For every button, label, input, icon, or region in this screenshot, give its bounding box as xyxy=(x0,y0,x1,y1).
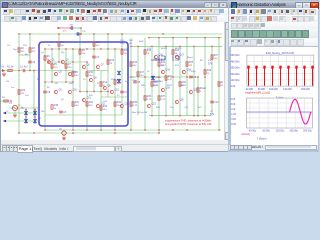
wire xyxy=(80,91,108,93)
transistor Q15 xyxy=(154,55,157,59)
resistor R23 xyxy=(172,50,174,54)
wire xyxy=(101,96,128,98)
svg-text:Rload: Rload xyxy=(200,88,207,90)
wire xyxy=(45,81,73,83)
node xyxy=(193,45,195,47)
svg-text:BD912: BD912 xyxy=(175,48,182,50)
resistor R11 xyxy=(93,42,95,46)
mosfet M1 xyxy=(159,55,165,61)
node xyxy=(197,115,199,117)
wire red link xyxy=(60,27,70,29)
wire xyxy=(165,46,167,115)
svg-text:C5: C5 xyxy=(137,82,141,84)
node xyxy=(179,45,181,47)
mosfet M2 xyxy=(173,55,179,61)
svg-text:R8: R8 xyxy=(70,24,74,26)
wire xyxy=(45,48,128,50)
svg-text:120.00m: 120.00m xyxy=(230,79,239,82)
resistor R13 xyxy=(107,60,109,64)
resistor R20 xyxy=(151,82,153,86)
svg-text:D2: D2 xyxy=(38,118,42,120)
node xyxy=(34,116,36,118)
node xyxy=(211,45,213,47)
svg-text:47R: 47R xyxy=(175,65,179,67)
node xyxy=(34,109,36,111)
svg-text:100n: 100n xyxy=(120,43,125,45)
node xyxy=(130,129,132,131)
wire xyxy=(1,70,46,72)
svg-text:R32: R32 xyxy=(89,102,94,104)
svg-text:47R: 47R xyxy=(161,65,165,67)
capacitor C8 xyxy=(43,91,47,93)
resistor R9 xyxy=(79,50,81,54)
svg-text:2n2: 2n2 xyxy=(11,87,15,89)
svg-text:Q2: Q2 xyxy=(59,72,63,74)
svg-text:R10: R10 xyxy=(89,72,94,74)
svg-text:R24: R24 xyxy=(129,40,134,42)
node xyxy=(151,115,153,117)
svg-text:4k7: 4k7 xyxy=(133,65,137,67)
node xyxy=(197,76,199,78)
resistor R31 xyxy=(72,102,74,106)
node xyxy=(79,48,81,50)
resistor R35 xyxy=(130,102,132,106)
node xyxy=(100,91,102,93)
wire xyxy=(204,38,206,116)
svg-text:10: 10 xyxy=(207,73,210,75)
resistor R16 xyxy=(130,62,132,66)
wire xyxy=(151,46,153,115)
svg-text:R16: R16 xyxy=(133,62,138,64)
node xyxy=(158,129,160,131)
node xyxy=(121,33,123,35)
svg-text:C4: C4 xyxy=(7,45,11,47)
node xyxy=(93,48,95,50)
node IN xyxy=(2,69,5,72)
svg-text:0R22: 0R22 xyxy=(153,85,159,87)
node xyxy=(100,129,102,131)
svg-text:Q13: Q13 xyxy=(103,101,108,103)
svg-text:3W: 3W xyxy=(181,85,184,87)
node xyxy=(165,115,167,117)
svg-text:10p: 10p xyxy=(13,49,17,51)
svg-text:Q1: Q1 xyxy=(41,52,45,54)
capacitor C3 xyxy=(59,111,63,113)
transistor Q17 xyxy=(175,55,178,59)
svg-text:200.00u: 200.00u xyxy=(303,130,312,133)
svg-text:R36: R36 xyxy=(147,96,152,98)
node xyxy=(18,132,20,134)
svg-text:100.00K: 100.00K xyxy=(269,88,278,91)
svg-text:and yields 0.007% crossover at: and yields 0.007% crossover at 500 mW xyxy=(165,122,212,126)
svg-text:1k: 1k xyxy=(175,53,178,55)
wire xyxy=(211,46,213,115)
wire xyxy=(193,46,195,115)
svg-text:Q8: Q8 xyxy=(108,86,112,88)
svg-text:C1 4u7: C1 4u7 xyxy=(20,66,28,69)
svg-text:R29: R29 xyxy=(21,90,26,92)
svg-text:C5: C5 xyxy=(83,79,87,81)
resistor R1 xyxy=(8,70,12,72)
wire xyxy=(130,38,132,130)
node xyxy=(186,76,188,78)
node xyxy=(107,48,109,50)
capacitor C9 xyxy=(71,26,73,30)
diode D1 xyxy=(24,111,27,115)
transistor Q12 xyxy=(96,104,99,108)
svg-text:0.22: 0.22 xyxy=(133,105,138,107)
node xyxy=(107,91,109,93)
transistor Q5 xyxy=(82,65,85,69)
wire xyxy=(93,34,95,92)
diode D8 xyxy=(117,79,120,83)
node xyxy=(86,61,88,63)
wire xyxy=(128,76,198,78)
svg-text:220: 220 xyxy=(68,67,72,69)
svg-text:R24: R24 xyxy=(182,82,187,84)
wire xyxy=(49,61,87,63)
node xyxy=(162,33,164,35)
resistor R27 xyxy=(211,55,213,59)
wire xyxy=(63,135,65,138)
svg-text:C10: C10 xyxy=(214,102,219,104)
node xyxy=(79,33,81,35)
node xyxy=(172,76,174,78)
node xyxy=(114,132,116,134)
wire xyxy=(86,62,88,130)
svg-text:R31: R31 xyxy=(75,102,80,104)
wire xyxy=(45,70,73,72)
node xyxy=(179,115,181,117)
node xyxy=(65,81,67,83)
transistor Q3 xyxy=(61,60,64,64)
plot2 zero line xyxy=(246,111,312,113)
svg-text:C6: C6 xyxy=(83,31,87,33)
svg-text:Q19: Q19 xyxy=(166,88,171,90)
svg-text:100: 100 xyxy=(214,58,218,60)
svg-text:Q13: Q13 xyxy=(115,90,120,92)
wire xyxy=(131,45,222,47)
svg-text:R26: R26 xyxy=(207,70,212,72)
resistor Rload xyxy=(197,88,199,92)
node xyxy=(144,76,146,78)
node xyxy=(151,45,153,47)
node xyxy=(44,129,46,131)
svg-text:0R22: 0R22 xyxy=(167,85,173,87)
svg-text:4k7: 4k7 xyxy=(129,43,133,45)
node xyxy=(33,132,35,134)
svg-text:R21: R21 xyxy=(161,62,166,64)
node xyxy=(193,115,195,117)
transistor Q14 xyxy=(120,104,123,108)
resistor R37 xyxy=(158,96,160,100)
svg-text:Q21: Q21 xyxy=(152,104,157,106)
node xyxy=(86,91,88,93)
svg-text:4k7: 4k7 xyxy=(61,45,65,47)
svg-text:Q14: Q14 xyxy=(125,104,130,106)
svg-text:Q20: Q20 xyxy=(180,100,185,102)
transistor Q8 xyxy=(103,86,106,90)
svg-text:160.00u: 160.00u xyxy=(289,130,298,133)
transistor Q2 xyxy=(54,72,57,76)
wire xyxy=(179,46,181,115)
wire xyxy=(45,114,122,116)
node xyxy=(72,132,74,134)
svg-text:-1.00: -1.00 xyxy=(230,113,236,116)
svg-text:Q17: Q17 xyxy=(180,55,185,57)
node xyxy=(72,61,74,63)
wire xyxy=(9,107,39,109)
svg-text:120.00u: 120.00u xyxy=(275,130,284,133)
node xyxy=(204,76,206,78)
svg-text:R5: R5 xyxy=(37,79,41,81)
svg-text:560: 560 xyxy=(75,105,79,107)
node xyxy=(10,100,12,102)
node xyxy=(44,81,46,83)
svg-text:Q3: Q3 xyxy=(66,60,70,62)
diode D4 xyxy=(33,119,36,123)
svg-text:10k: 10k xyxy=(82,53,86,55)
svg-text:R13: R13 xyxy=(110,60,115,62)
resistor R2 xyxy=(18,48,20,52)
svg-text:R5: R5 xyxy=(54,64,58,66)
svg-text:mag(harm(v(RL),2,a,b)): mag(harm(v(RL),2,a,b)) xyxy=(245,92,270,95)
svg-text:0.00: 0.00 xyxy=(230,85,235,88)
resistor R22 xyxy=(165,76,167,80)
wire xyxy=(107,34,109,97)
svg-text:1.00: 1.00 xyxy=(230,108,235,111)
resistor R6 xyxy=(58,42,60,46)
capacitor C6 xyxy=(189,76,193,78)
resistor R38 xyxy=(51,105,53,109)
svg-text:R4: R4 xyxy=(47,56,51,58)
wire xyxy=(137,46,139,115)
svg-text:140.00K: 140.00K xyxy=(283,88,292,91)
resistor R26 xyxy=(204,70,206,74)
resistor R4 xyxy=(44,56,46,60)
node xyxy=(25,116,27,118)
resistor R28 xyxy=(218,82,220,86)
node xyxy=(58,33,60,35)
node xyxy=(186,129,188,131)
transistor Q20 xyxy=(175,100,178,104)
wire xyxy=(1,100,11,102)
svg-text:R25: R25 xyxy=(189,62,194,64)
node xyxy=(158,76,160,78)
node xyxy=(72,81,74,83)
node xyxy=(158,132,160,134)
resistor R6 xyxy=(4,100,8,102)
node xyxy=(107,33,109,35)
transistor Q19 xyxy=(161,88,164,92)
svg-text:R12: R12 xyxy=(23,45,28,47)
node xyxy=(80,33,82,35)
capacitor C5 xyxy=(133,81,137,83)
svg-text:T (Secs): T (Secs) xyxy=(256,137,266,141)
resistor R17 xyxy=(137,72,139,76)
svg-text:3W: 3W xyxy=(189,65,193,67)
svg-text:Q5: Q5 xyxy=(87,65,91,67)
svg-text:Q16: Q16 xyxy=(166,70,171,72)
resistor R7 xyxy=(65,64,67,68)
svg-text:8: 8 xyxy=(200,91,202,93)
node xyxy=(63,130,65,132)
transistor Q21 xyxy=(147,104,150,108)
transistor Q13 xyxy=(110,90,113,94)
node FB arrow xyxy=(58,27,61,29)
svg-text:220: 220 xyxy=(54,67,58,69)
capacitor C10 xyxy=(77,32,79,36)
node xyxy=(114,48,116,50)
svg-text:R2: R2 xyxy=(21,48,25,50)
node arrow left1 xyxy=(3,112,6,114)
svg-text:R34: R34 xyxy=(117,102,122,104)
diode D3 xyxy=(24,119,27,123)
wire xyxy=(19,132,159,134)
node xyxy=(148,37,150,39)
node xyxy=(51,81,53,83)
svg-text:0.47: 0.47 xyxy=(168,79,173,81)
node xyxy=(204,37,206,39)
wire xyxy=(3,112,39,114)
wire xyxy=(79,34,81,92)
svg-text:R7: R7 xyxy=(68,64,72,66)
node xyxy=(130,45,132,47)
node xyxy=(80,27,82,29)
svg-text:200.00K: 200.00K xyxy=(301,88,310,91)
svg-text:Q15: Q15 xyxy=(147,48,152,50)
wire xyxy=(25,110,27,124)
wire xyxy=(65,49,67,82)
transistor Q16 xyxy=(161,70,164,74)
wire xyxy=(186,38,188,116)
node xyxy=(144,129,146,131)
node xyxy=(121,48,123,50)
node arrow left2 xyxy=(3,120,6,122)
wire xyxy=(3,120,39,122)
svg-text:R3: R3 xyxy=(32,48,36,50)
svg-text:R18: R18 xyxy=(147,50,152,52)
node xyxy=(186,37,188,39)
resistor R14 xyxy=(114,80,116,84)
node xyxy=(172,37,174,39)
svg-text:0.22: 0.22 xyxy=(161,99,166,101)
node xyxy=(86,129,88,131)
svg-text:R38: R38 xyxy=(54,105,59,107)
node xyxy=(72,129,74,131)
svg-text:0.22: 0.22 xyxy=(147,99,152,101)
svg-text:R1 1k: R1 1k xyxy=(7,66,14,69)
svg-text:R12: R12 xyxy=(103,82,108,84)
svg-text:4n7: 4n7 xyxy=(198,107,202,109)
resistor R15 xyxy=(121,50,123,54)
wire xyxy=(158,38,160,133)
wire xyxy=(218,38,220,130)
node xyxy=(79,91,81,93)
resistor R34 xyxy=(114,102,116,106)
wire xyxy=(51,49,53,82)
selection box xyxy=(39,42,128,126)
resistor R5 xyxy=(51,64,53,68)
svg-text:560: 560 xyxy=(41,111,45,113)
transistor Q9 xyxy=(54,90,57,94)
node xyxy=(18,33,20,35)
svg-text:1k5: 1k5 xyxy=(170,107,174,109)
plot1 frame xyxy=(246,55,313,86)
source V1 xyxy=(12,105,17,110)
svg-text:8R: 8R xyxy=(200,60,203,62)
transistor Q10 xyxy=(68,90,71,94)
node xyxy=(130,76,132,78)
svg-text:C4: C4 xyxy=(96,57,100,59)
resistor R10 xyxy=(86,72,88,76)
svg-text:10u: 10u xyxy=(25,95,29,97)
wire xyxy=(18,34,20,133)
node xyxy=(72,48,74,50)
wire xyxy=(72,49,74,130)
svg-text:1k2: 1k2 xyxy=(75,75,79,77)
svg-text:R11: R11 xyxy=(96,42,101,44)
svg-text:57V: 57V xyxy=(210,113,215,116)
node xyxy=(44,48,46,50)
svg-text:IRFP9240: IRFP9240 xyxy=(153,81,163,83)
wire xyxy=(100,71,102,131)
svg-text:R44: R44 xyxy=(156,107,161,109)
svg-text:R33: R33 xyxy=(103,106,108,108)
node xyxy=(70,27,72,29)
svg-text:Max 1.6V pk 3W: Max 1.6V pk 3W xyxy=(132,112,147,114)
wire xyxy=(114,49,116,130)
svg-text:47k: 47k xyxy=(32,51,36,53)
svg-text:4k7: 4k7 xyxy=(96,45,100,47)
node xyxy=(48,61,50,63)
svg-text:480.00m: 480.00m xyxy=(230,60,239,63)
resistor R25 xyxy=(186,62,188,66)
transistor Q18 xyxy=(182,70,185,74)
wire xyxy=(121,34,123,115)
wire xyxy=(74,28,81,34)
svg-text:1k: 1k xyxy=(147,53,150,55)
svg-text:R22: R22 xyxy=(168,76,173,78)
resistor R33 xyxy=(100,106,102,110)
transistor Q22 xyxy=(189,90,192,94)
svg-text:C8: C8 xyxy=(47,92,51,94)
svg-text:5.00: 5.00 xyxy=(230,98,235,101)
wire xyxy=(172,38,174,116)
svg-text:57V: 57V xyxy=(208,63,213,66)
node xyxy=(93,33,95,35)
svg-text:Q7: Q7 xyxy=(101,65,105,67)
wire xyxy=(63,129,65,132)
svg-text:R15: R15 xyxy=(124,50,129,52)
svg-text:C3: C3 xyxy=(63,112,67,114)
ground xyxy=(2,74,6,76)
right window: Harmonic Distortion Analysis xyxy=(228,0,319,152)
node xyxy=(204,115,206,117)
svg-text:100: 100 xyxy=(89,75,93,77)
svg-text:C2: C2 xyxy=(32,62,36,64)
svg-text:0k82: 0k82 xyxy=(139,41,144,43)
svg-text:3.00: 3.00 xyxy=(230,103,235,106)
transistor Q4 xyxy=(68,72,71,76)
node xyxy=(63,134,65,136)
svg-text:Q1: Q1 xyxy=(52,60,56,62)
svg-text:Q12: Q12 xyxy=(101,104,106,106)
diode D7 xyxy=(117,71,120,75)
svg-text:V1: V1 xyxy=(9,102,13,105)
wire xyxy=(44,49,46,130)
svg-text:R27: R27 xyxy=(214,55,219,57)
